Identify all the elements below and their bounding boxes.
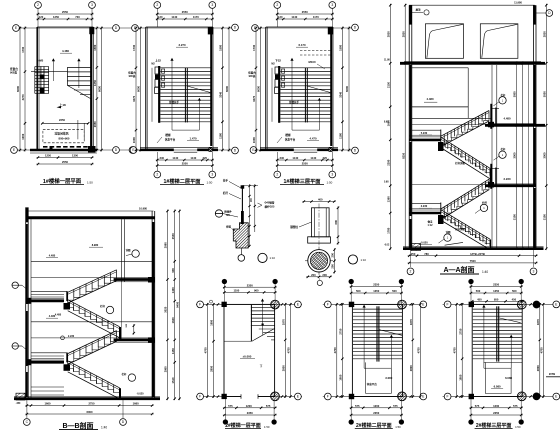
svg-text:575: 575 (475, 404, 480, 408)
svg-text:栏杆: 栏杆 (122, 372, 127, 376)
svg-text:500: 500 (476, 289, 481, 293)
svg-text:10.980: 10.980 (139, 206, 147, 210)
svg-text:1:50: 1:50 (515, 425, 521, 429)
svg-text:栏杆: 栏杆 (501, 147, 506, 151)
svg-text:2350: 2350 (247, 411, 253, 415)
svg-text:200: 200 (311, 273, 316, 277)
svg-text:1180: 1180 (219, 132, 223, 138)
svg-text:575: 575 (228, 404, 233, 408)
svg-text:1:10: 1:10 (361, 258, 367, 262)
svg-text:Φ48钢管: Φ48钢管 (265, 201, 275, 205)
svg-text:-0.02: -0.02 (384, 245, 390, 247)
svg-text:6000: 6000 (98, 86, 102, 92)
svg-text:1:50: 1:50 (395, 425, 401, 429)
svg-text:1900: 1900 (210, 319, 214, 325)
svg-text:8.98: 8.98 (384, 122, 389, 124)
svg-text:6000: 6000 (16, 86, 20, 92)
svg-text:2550: 2550 (62, 10, 68, 14)
svg-text:F: F (327, 395, 329, 399)
svg-text:栏杆: 栏杆 (100, 304, 105, 308)
svg-text:F: F (199, 395, 201, 399)
svg-text:6000: 6000 (225, 86, 229, 92)
svg-text:2350: 2350 (373, 283, 379, 287)
svg-text:1#TB~2#TB: 1#TB~2#TB (470, 252, 485, 256)
svg-text:200: 200 (331, 252, 335, 257)
svg-text:5.98: 5.98 (384, 182, 389, 184)
svg-text:1870: 1870 (281, 319, 285, 325)
svg-text:2350: 2350 (493, 411, 499, 415)
svg-text:1:50: 1:50 (327, 181, 333, 185)
svg-text:±0.000: ±0.000 (243, 355, 252, 359)
plan: 2# stair second floor (323, 279, 427, 429)
svg-text:1180: 1180 (339, 132, 343, 138)
svg-text:250: 250 (411, 252, 416, 256)
svg-text:2550: 2550 (182, 162, 188, 166)
svg-text:6000: 6000 (87, 410, 93, 414)
svg-text:1300: 1300 (72, 154, 78, 158)
svg-text:320: 320 (323, 156, 328, 160)
svg-text:1950: 1950 (458, 374, 462, 380)
svg-text:3: 3 (211, 173, 213, 177)
svg-text:1620: 1620 (171, 317, 175, 323)
svg-text:F: F (447, 303, 449, 307)
svg-text:1:50: 1:50 (264, 425, 270, 429)
section A-A (384, 0, 553, 274)
svg-text:B—B剖面: B—B剖面 (62, 421, 93, 430)
svg-text:2550: 2550 (302, 162, 308, 166)
svg-text:1140: 1140 (172, 156, 178, 160)
svg-text:垃圾间排风: 垃圾间排风 (55, 131, 69, 135)
svg-text:栏杆: 栏杆 (482, 200, 487, 204)
svg-text:-0.020: -0.020 (420, 241, 428, 245)
svg-text:2830: 2830 (386, 31, 390, 37)
svg-text:下22: 下22 (275, 59, 281, 63)
svg-text:4700: 4700 (203, 347, 207, 353)
svg-text:1350: 1350 (493, 289, 499, 293)
svg-text:900高: 900高 (129, 74, 136, 78)
svg-text:1780: 1780 (386, 227, 390, 233)
svg-text:200: 200 (331, 264, 335, 269)
svg-text:4.480: 4.480 (427, 97, 434, 101)
svg-text:1870: 1870 (536, 319, 540, 325)
svg-text:2#TB: 2#TB (549, 372, 555, 376)
svg-text:详图: 详图 (446, 230, 451, 234)
svg-text:1:40: 1:40 (482, 270, 488, 274)
svg-text:栏杆详图: 栏杆详图 (455, 227, 465, 231)
svg-text:扶手: 扶手 (223, 179, 229, 183)
svg-text:上22: 上22 (155, 59, 161, 63)
svg-text:栏杆详图: 栏杆详图 (455, 161, 465, 165)
plan: 2# stair first floor (196, 279, 302, 429)
svg-text:3000: 3000 (542, 152, 546, 158)
svg-text:4700: 4700 (416, 347, 420, 353)
svg-text:1:50: 1:50 (207, 181, 213, 185)
svg-text:2: 2 (276, 173, 278, 177)
svg-text:5.230: 5.230 (421, 131, 428, 135)
svg-text:4700: 4700 (539, 347, 543, 353)
svg-text:4.480: 4.480 (49, 253, 56, 257)
svg-text:休息平台: 休息平台 (366, 382, 378, 386)
svg-text:2530: 2530 (171, 233, 175, 239)
svg-text:2830: 2830 (401, 31, 405, 37)
svg-text:1#楼梯一层平面: 1#楼梯一层平面 (43, 177, 82, 185)
svg-text:3: 3 (533, 270, 535, 274)
svg-text:1730: 1730 (252, 44, 256, 50)
svg-text:休息平台: 休息平台 (164, 137, 176, 141)
svg-text:F: F (327, 303, 329, 307)
svg-text:F: F (199, 303, 201, 307)
section B-B (12, 206, 181, 429)
svg-text:7500: 7500 (470, 259, 476, 263)
svg-text:500: 500 (356, 289, 361, 293)
svg-text:3.270: 3.270 (179, 43, 186, 47)
svg-text:楼梯: 楼梯 (165, 133, 171, 137)
svg-text:2: 2 (156, 3, 158, 7)
svg-text:休息平台: 休息平台 (284, 137, 296, 141)
plan: 2# stair third floor (443, 279, 560, 429)
svg-text:1450: 1450 (171, 348, 175, 354)
svg-text:1:12: 1:12 (427, 224, 433, 227)
svg-text:575: 575 (513, 404, 518, 408)
svg-text:11.980: 11.980 (514, 0, 522, 4)
svg-text:M100: M100 (309, 60, 316, 64)
svg-text:2350: 2350 (493, 283, 499, 287)
svg-text:1660: 1660 (133, 402, 139, 406)
svg-text:3.080: 3.080 (385, 376, 392, 380)
svg-text:3: 3 (211, 3, 213, 7)
svg-text:2800: 2800 (210, 365, 214, 371)
svg-text:1:10: 1:10 (270, 256, 276, 260)
svg-text:575: 575 (355, 404, 360, 408)
svg-text:2250: 2250 (59, 118, 65, 122)
svg-text:6000: 6000 (345, 86, 349, 92)
svg-text:3270: 3270 (21, 94, 25, 100)
svg-text:横杆Φ25: 横杆Φ25 (264, 204, 275, 208)
svg-text:4700: 4700 (287, 347, 291, 353)
svg-text:780: 780 (424, 252, 429, 256)
svg-text:4.480: 4.480 (504, 117, 511, 121)
svg-text:1730: 1730 (132, 44, 136, 50)
svg-text:2350: 2350 (373, 411, 379, 415)
svg-text:6000: 6000 (257, 86, 261, 92)
svg-text:1000: 1000 (21, 133, 25, 139)
svg-text:1170: 1170 (313, 15, 319, 19)
svg-text:120: 120 (39, 15, 44, 19)
svg-text:1400: 1400 (171, 287, 175, 293)
svg-text:900: 900 (171, 268, 175, 273)
svg-text:2800: 2800 (536, 365, 540, 371)
svg-text:2550: 2550 (62, 160, 68, 164)
svg-text:3270: 3270 (252, 95, 256, 101)
svg-text:1:40: 1:40 (101, 425, 107, 429)
svg-text:1200: 1200 (493, 404, 499, 408)
svg-text:3: 3 (331, 3, 333, 7)
svg-text:2.230: 2.230 (68, 335, 75, 338)
svg-text:栏杆: 栏杆 (223, 191, 229, 195)
svg-text:2#楼梯二层平面: 2#楼梯二层平面 (356, 422, 392, 429)
svg-text:900高: 900高 (10, 71, 17, 75)
svg-text:2050: 2050 (93, 121, 97, 127)
svg-text:6000: 6000 (137, 86, 141, 92)
svg-text:1140: 1140 (190, 156, 196, 160)
svg-text:1950: 1950 (339, 374, 343, 380)
svg-text:详图: 详图 (126, 248, 131, 252)
svg-text:1660: 1660 (45, 402, 51, 406)
svg-text:A—A剖面: A—A剖面 (443, 265, 474, 274)
svg-text:3020: 3020 (164, 306, 168, 312)
svg-text:9250: 9250 (401, 152, 405, 158)
svg-text:8.980: 8.980 (92, 243, 99, 247)
svg-text:200: 200 (322, 273, 327, 277)
svg-text:1100: 1100 (233, 289, 239, 293)
svg-text:120: 120 (278, 15, 283, 19)
svg-text:1200: 1200 (246, 404, 252, 408)
svg-text:2150: 2150 (386, 82, 390, 88)
svg-text:-0.020: -0.020 (136, 393, 144, 396)
svg-text:500: 500 (512, 289, 517, 293)
svg-text:1360: 1360 (386, 196, 390, 202)
svg-text:4700: 4700 (333, 347, 337, 353)
svg-text:2: 2 (410, 270, 412, 274)
svg-text:靠墙扶手: 靠墙扶手 (289, 100, 300, 104)
svg-text:-450: -450 (16, 402, 21, 405)
svg-text:低窗台: 低窗台 (9, 67, 18, 71)
svg-text:1580: 1580 (339, 44, 343, 50)
svg-text:屋顶: 屋顶 (416, 8, 421, 12)
svg-text:3: 3 (91, 3, 93, 7)
svg-text:2.230: 2.230 (504, 177, 511, 181)
svg-text:1580: 1580 (219, 44, 223, 50)
svg-text:2980: 2980 (164, 242, 168, 248)
svg-text:2: 2 (37, 3, 39, 7)
svg-text:2750: 2750 (458, 328, 462, 334)
svg-text:450: 450 (512, 297, 517, 301)
svg-text:1510: 1510 (171, 377, 175, 383)
svg-text:3240: 3240 (219, 91, 223, 97)
svg-text:500: 500 (392, 289, 397, 293)
svg-text:2#楼梯三层平面: 2#楼梯三层平面 (476, 422, 512, 429)
svg-text:低窗台: 低窗台 (247, 71, 256, 75)
svg-text:3000: 3000 (513, 152, 517, 158)
svg-text:1140: 1140 (292, 156, 298, 160)
svg-text:2#M5: 2#M5 (37, 59, 44, 63)
svg-text:1580: 1580 (93, 44, 97, 50)
svg-text:340: 340 (160, 156, 165, 160)
svg-text:1200: 1200 (373, 404, 379, 408)
svg-text:2830: 2830 (542, 31, 546, 37)
svg-text:2550: 2550 (302, 10, 308, 14)
svg-text:3100: 3100 (513, 214, 517, 220)
svg-text:4700: 4700 (453, 347, 457, 353)
svg-text:6.170: 6.170 (299, 43, 306, 47)
svg-text:3100: 3100 (542, 214, 546, 220)
svg-text:1#楼梯三层平面: 1#楼梯三层平面 (284, 177, 321, 185)
svg-text:3240: 3240 (339, 91, 343, 97)
svg-text:575: 575 (393, 404, 398, 408)
svg-text:下: 下 (260, 364, 263, 368)
plan: 1# stair third floor (247, 2, 358, 185)
svg-text:3000: 3000 (542, 91, 546, 97)
svg-text:1:50: 1:50 (87, 181, 93, 185)
svg-text:1350: 1350 (373, 289, 379, 293)
svg-text:11.98: 11.98 (384, 60, 390, 62)
svg-text:2750: 2750 (89, 402, 95, 406)
svg-text:预埋件: 预埋件 (224, 209, 232, 213)
svg-text:2750: 2750 (339, 328, 343, 334)
svg-text:450: 450 (477, 297, 482, 301)
svg-text:9400: 9400 (176, 301, 180, 307)
svg-text:1730: 1730 (21, 46, 25, 52)
svg-text:575: 575 (266, 404, 271, 408)
svg-text:1250: 1250 (45, 154, 51, 158)
svg-text:950: 950 (494, 297, 499, 301)
svg-text:340: 340 (280, 156, 285, 160)
svg-text:做法: 做法 (427, 220, 433, 224)
svg-text:楼梯: 楼梯 (285, 133, 291, 137)
svg-text:1170: 1170 (193, 15, 199, 19)
svg-text:3: 3 (331, 173, 333, 177)
detail: baluster column (290, 198, 366, 286)
svg-text:上18: 上18 (59, 102, 66, 107)
svg-text:1250: 1250 (53, 15, 59, 19)
svg-text:120: 120 (158, 15, 163, 19)
svg-text:1000: 1000 (132, 137, 136, 143)
svg-text:800×900: 800×900 (59, 136, 70, 140)
svg-text:4.470: 4.470 (310, 136, 317, 140)
svg-text:4.480: 4.480 (55, 314, 62, 317)
svg-text:2#楼梯一层平面: 2#楼梯一层平面 (225, 422, 261, 429)
svg-text:6.080: 6.080 (505, 376, 512, 380)
svg-text:1.470: 1.470 (190, 136, 197, 140)
plan: 1# stair first floor (9, 2, 140, 185)
svg-text:600: 600 (334, 220, 338, 225)
svg-text:1870: 1870 (409, 319, 413, 325)
plan: 1# stair second floor (127, 2, 238, 185)
svg-text:2960: 2960 (164, 366, 168, 372)
svg-text:900高: 900高 (249, 74, 256, 78)
svg-text:2350: 2350 (247, 283, 253, 287)
svg-text:730: 730 (75, 15, 80, 19)
svg-text:320: 320 (203, 156, 208, 160)
svg-text:1140: 1140 (291, 15, 297, 19)
svg-text:960: 960 (254, 289, 259, 293)
svg-text:2: 2 (276, 3, 278, 7)
svg-text:2: 2 (156, 173, 158, 177)
svg-text:1250: 1250 (93, 80, 97, 86)
svg-text:低窗台: 低窗台 (127, 71, 136, 75)
svg-text:3000: 3000 (513, 91, 517, 97)
svg-text:钢管柱: 钢管柱 (290, 225, 298, 229)
svg-text:靠墙扶手: 靠墙扶手 (169, 100, 180, 104)
svg-text:400: 400 (318, 198, 323, 202)
svg-text:2800: 2800 (409, 365, 413, 371)
svg-text:6.080: 6.080 (494, 384, 501, 388)
svg-text:栏杆: 栏杆 (501, 93, 506, 97)
svg-text:焊接: 焊接 (225, 225, 231, 229)
svg-text:1140: 1140 (310, 156, 316, 160)
svg-text:2550: 2550 (182, 10, 188, 14)
svg-text:1#楼梯二层平面: 1#楼梯二层平面 (164, 177, 201, 185)
svg-text:2290: 2290 (386, 159, 390, 165)
svg-text:1000: 1000 (252, 137, 256, 143)
svg-text:3270: 3270 (132, 95, 136, 101)
detail: railing connection (215, 179, 275, 263)
svg-text:F: F (447, 395, 449, 399)
svg-text:1140: 1140 (171, 15, 177, 19)
svg-text:4.480: 4.480 (62, 49, 69, 53)
svg-text:2800: 2800 (281, 365, 285, 371)
svg-text:2.230: 2.230 (421, 204, 428, 208)
